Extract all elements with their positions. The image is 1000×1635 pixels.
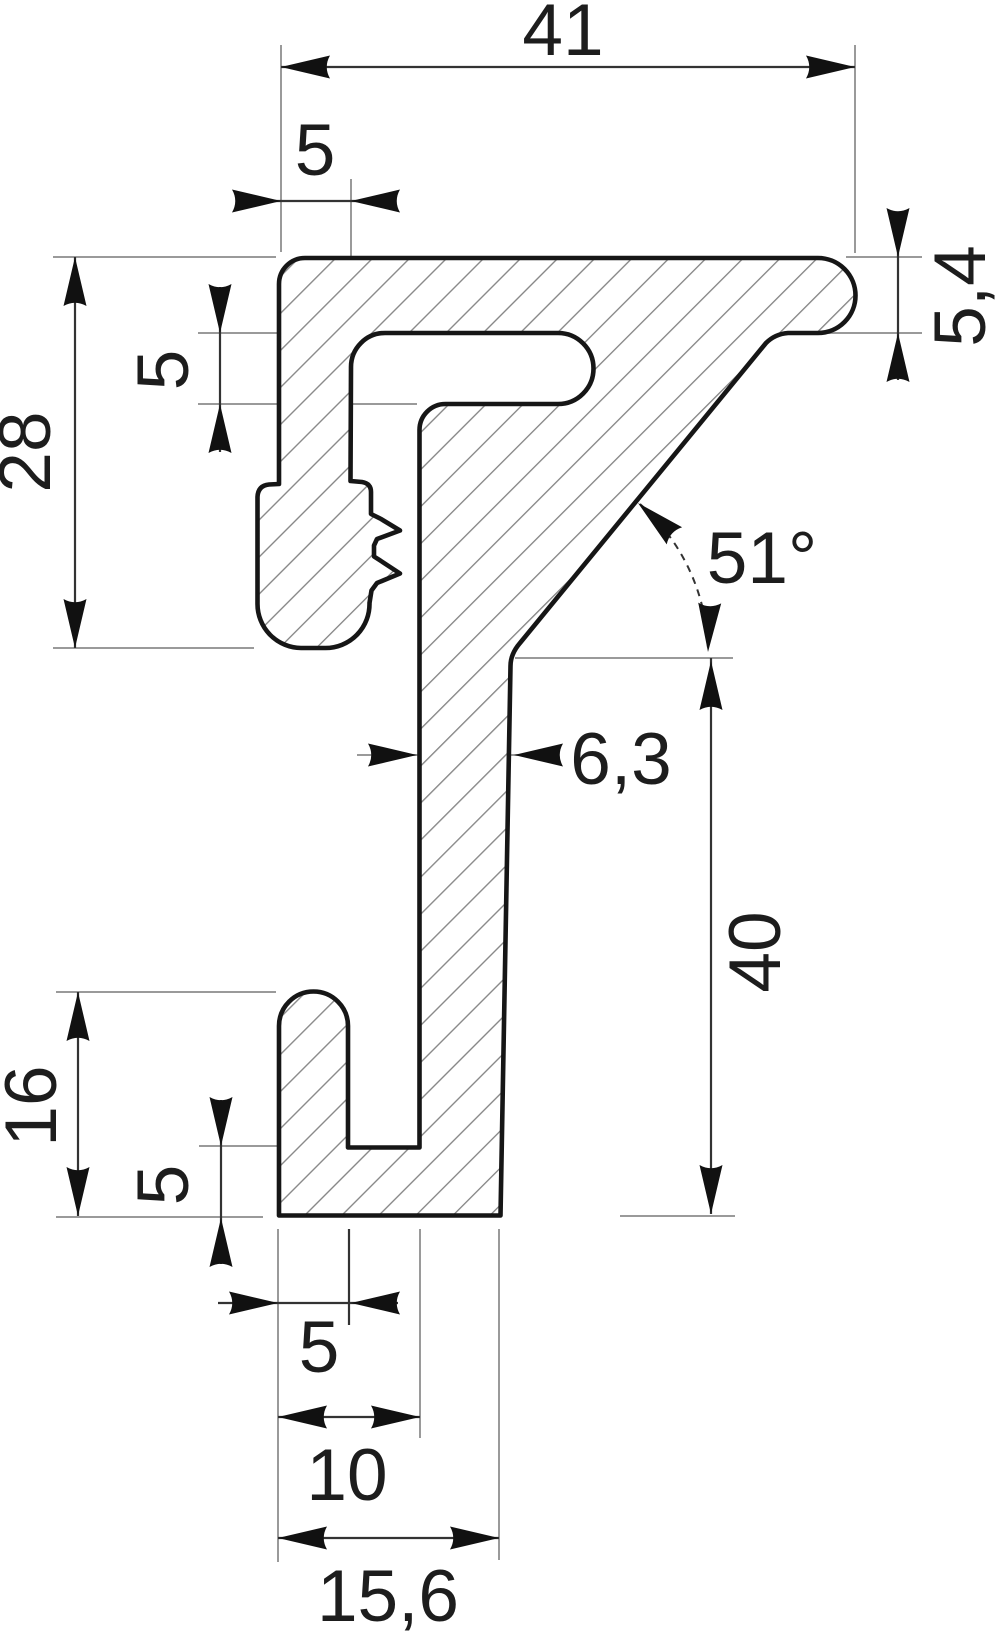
svg-text:5: 5 [123, 350, 204, 391]
svg-text:5: 5 [295, 110, 336, 191]
svg-text:41: 41 [522, 0, 603, 71]
svg-text:5: 5 [299, 1307, 340, 1388]
svg-text:16: 16 [0, 1065, 72, 1146]
svg-text:51°: 51° [707, 518, 817, 599]
svg-text:5,4: 5,4 [920, 245, 1000, 346]
svg-text:5: 5 [123, 1165, 204, 1206]
svg-text:28: 28 [0, 411, 66, 492]
svg-text:40: 40 [715, 911, 796, 992]
svg-text:6,3: 6,3 [570, 719, 671, 800]
svg-text:10: 10 [306, 1435, 387, 1516]
svg-text:15,6: 15,6 [317, 1556, 459, 1635]
